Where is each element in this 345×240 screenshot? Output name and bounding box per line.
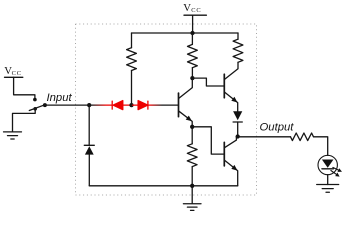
resistor R4 [233, 39, 243, 62]
transistor Q3 (top totem-pole) [223, 74, 225, 98]
switch pole dot [43, 103, 47, 107]
svg-text:Input: Input [47, 92, 73, 104]
Vcc supply bar (input switch) [5, 76, 23, 78]
wire D2 to Q1 base [148, 104, 178, 106]
resistor R1 [127, 48, 137, 71]
ground rail (bottom) [89, 185, 237, 187]
switch bottom contact dot [33, 107, 37, 111]
Vcc rail (top) [132, 32, 239, 34]
Q4 emitter wire to ground rail [225, 160, 238, 185]
switch lever [29, 105, 45, 111]
wire R1 top lead to Vcc rail [131, 33, 133, 48]
wire rail to R4 top lead [237, 33, 239, 39]
ground symbol (LED) [317, 185, 339, 193]
dotted enclosure box [76, 24, 257, 195]
diode D1 (red, pointing left) [112, 101, 123, 110]
svg-text:V: V [183, 2, 191, 14]
Q4 emitter arrow [231, 165, 237, 171]
transistor Q4 (bottom totem-pole) [223, 142, 225, 166]
LED emission arrow 2 [331, 171, 340, 177]
wire Vcc bar to rail [192, 15, 194, 33]
wire R1 bottom lead to diode node [131, 71, 133, 106]
resistor R2 [188, 44, 198, 67]
junction dot (Q1 emitter / R3 / Q4 base) [190, 125, 194, 129]
diode D4 (totem-pole, pointing down) [233, 111, 242, 120]
wire R3 bottom lead to ground rail [191, 167, 193, 186]
junction dot (diode node / R1) [129, 103, 133, 107]
Vcc rail junction dot [190, 31, 194, 35]
LED D5 [318, 155, 337, 174]
Q1 emitter arrow [186, 116, 192, 122]
resistor R5 (output series) [291, 133, 314, 141]
wire switch bottom contact to ground [13, 109, 36, 132]
svg-text:CC: CC [191, 7, 201, 14]
svg-text:CC: CC [12, 70, 22, 77]
ground (input switch) [4, 132, 22, 139]
wire ground rail to ground symbol [191, 186, 193, 204]
wire D1 to diode node [123, 104, 132, 106]
Q1 collector wire to R2 node [179, 78, 192, 98]
input node junction [87, 103, 91, 107]
diode D3 (input clamp, pointing up) [84, 144, 94, 146]
Vcc supply bar (top) [184, 14, 206, 16]
wire R2 node to Q3 base [192, 78, 223, 86]
ground symbol (center) [183, 204, 201, 211]
wire D4 to output node [237, 122, 239, 137]
Vcc label (input switch) [4, 65, 22, 77]
LED emission arrow 1 [333, 167, 342, 172]
wire R2 top lead to rail [191, 33, 193, 44]
wire switch pole to input node [45, 104, 89, 106]
junction dot (R2 / Q1 collector / Q3 base) [190, 76, 194, 80]
Q3 emitter wire to D4 [225, 92, 238, 111]
diode D2 (red, pointing right) [138, 101, 148, 110]
transistor Q1 (phase splitter) [178, 93, 180, 117]
wire R2 bottom lead to node [191, 68, 193, 78]
wire input node to diode D1 [89, 104, 112, 106]
wire LED to ground [327, 175, 329, 185]
output wire [238, 136, 291, 138]
wire R5 to LED [314, 137, 328, 156]
wire diode node to D2 [132, 104, 139, 106]
switch top contact dot [33, 98, 37, 102]
svg-text:Output: Output [260, 122, 295, 134]
wire Vcc bar to switch top contact [14, 77, 35, 99]
Q4 collector wire to output node [225, 137, 237, 148]
junction dot (ground rail / R3) [190, 184, 194, 188]
Vcc label (top) [183, 2, 201, 14]
wire D3 to ground rail [88, 155, 90, 186]
wire Q1 emitter node to Q4 base [192, 127, 223, 154]
output node junction [236, 134, 240, 138]
wire input node to D3 [88, 105, 90, 145]
Q1 emitter wire to emitter node [179, 111, 192, 127]
resistor R3 [187, 144, 197, 167]
Q3 emitter arrow [231, 97, 237, 103]
wire R3 top lead to Q1 emitter node [191, 127, 193, 144]
Q3 collector wire to R4 [225, 62, 238, 79]
